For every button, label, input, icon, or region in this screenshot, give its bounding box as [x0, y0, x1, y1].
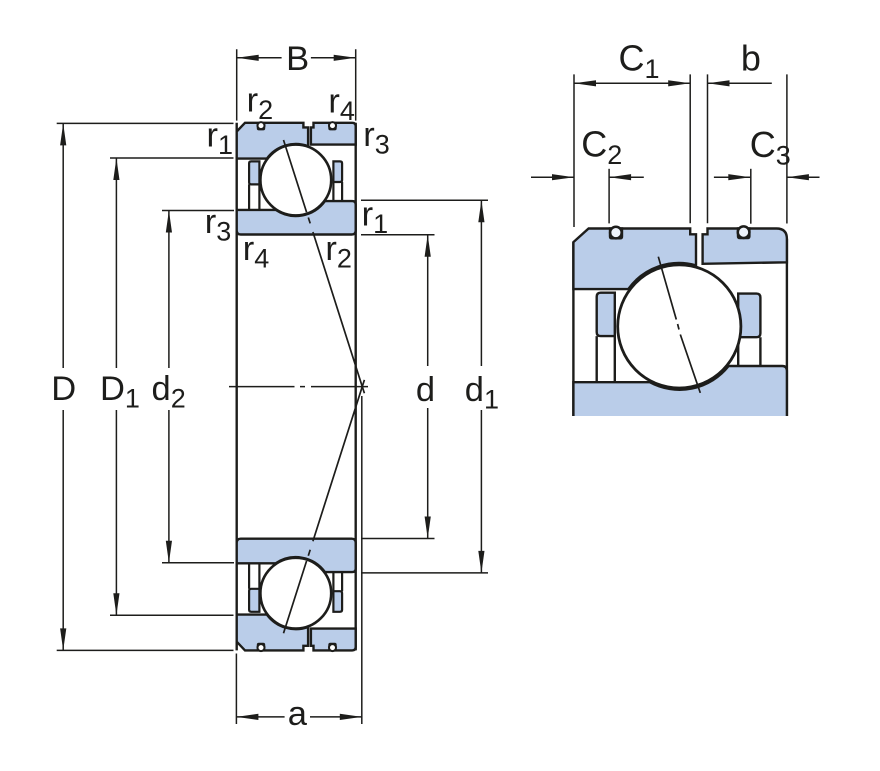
C3 dimension tails — [714, 176, 820, 178]
arrow D1 bottom — [113, 593, 119, 615]
wire: bearing right face line — [355, 123, 357, 651]
arrow d2 top — [166, 211, 172, 233]
d2 dimension line — [168, 211, 170, 563]
rivet hole circle right (outer ring) — [329, 122, 336, 129]
rivet hole pocket right (right figure) — [737, 227, 751, 239]
arrow d2 bottom — [166, 541, 172, 563]
ball (right figure) — [618, 265, 741, 388]
bottom section = mirror of top about y=386.6 — [237, 539, 356, 651]
svg-text:D: D — [51, 370, 76, 408]
wire: shoulder gap verticals left (lower) — [249, 563, 259, 589]
svg-text:d: d — [416, 371, 435, 409]
arrow D1 top — [113, 158, 119, 180]
outer ring upper-right portion — [311, 123, 356, 145]
a extension lines — [236, 396, 361, 724]
rivet hole circle right (right figure) — [738, 226, 750, 238]
a dimension line — [236, 716, 361, 718]
wire: shoulder gap verticals right (lower) — [333, 572, 342, 591]
wire: shoulder gap verticals right — [333, 182, 342, 201]
contact angle line top — [284, 140, 365, 393]
arrow a right — [340, 714, 362, 720]
cage shoulder block right (lower) — [333, 591, 342, 612]
contact angle line bottom — [284, 380, 365, 633]
rivet hole circle right (lower outer ring) — [329, 644, 336, 651]
d1 extension lines — [361, 200, 488, 573]
rivet hole circle left (lower outer ring) — [258, 644, 265, 651]
arrow d bottom — [425, 517, 431, 539]
outer ring upper-left portion — [237, 123, 308, 159]
wire: shoulder gap verticals left (right figure) — [597, 336, 615, 382]
C2 dimension tails — [531, 176, 644, 178]
inner ring lower section — [237, 539, 356, 572]
outer ring right portion (right figure) — [703, 229, 787, 264]
arrow d1 top — [478, 200, 484, 222]
rivet hole pocket left (outer ring) — [257, 122, 265, 130]
extension: slot left edge — [689, 74, 691, 223]
d dimension line — [427, 235, 429, 539]
rivet hole pocket right (lower outer ring) — [328, 643, 336, 651]
C2 extension: hole notch left edge — [608, 169, 610, 224]
rivet hole pocket right (outer ring) — [328, 122, 336, 130]
arrow D bottom — [60, 628, 66, 650]
d2 extension lines — [162, 211, 234, 563]
cage shoulder block left — [249, 161, 259, 184]
d1 dimension line — [480, 200, 482, 573]
contact angle line (right figure) with center dash-dot — [658, 257, 700, 393]
cage shoulder block left (right figure) — [597, 293, 615, 336]
wire: right figure left face line — [572, 242, 574, 416]
cage shoulder block left (lower) — [249, 589, 259, 612]
D1 extension lines — [110, 158, 234, 615]
B extension lines — [237, 49, 356, 120]
svg-text:a: a — [288, 695, 308, 733]
outer ring lower-left portion — [237, 615, 308, 651]
inner ring upper section — [237, 201, 356, 234]
wire: shoulder gap verticals right (right figure) — [738, 337, 760, 366]
rivet hole pocket left (lower outer ring) — [257, 643, 265, 651]
arrowheads right figure — [552, 80, 809, 180]
arrow C2 right (points left) — [609, 174, 631, 180]
C1 dimension line — [574, 82, 690, 84]
arrow C3 right (points left) — [787, 174, 809, 180]
ball (lower rolling element) — [260, 558, 331, 629]
arrow C3 left (points right) — [728, 174, 750, 180]
cage shoulder block right (right figure) — [738, 294, 760, 338]
rivet hole pocket left (right figure) — [609, 227, 623, 239]
D dimension line — [62, 123, 64, 650]
d extension lines — [361, 235, 435, 539]
wire: right figure right face line — [786, 239, 788, 416]
arrow C1 right — [668, 80, 690, 86]
wire: shoulder gap verticals left — [249, 184, 259, 210]
cage shoulder block right — [333, 161, 342, 182]
arrow B right — [334, 55, 356, 61]
C1/b extension line: figure left edge — [573, 74, 575, 227]
outer ring lower-right portion — [311, 629, 356, 651]
arrow C1 left — [574, 80, 596, 86]
D1 dimension line — [115, 158, 117, 615]
arrow d top — [425, 235, 431, 257]
extension: figure right edge — [786, 74, 788, 223]
extension: slot right edge — [707, 74, 709, 223]
b dimension tail line — [708, 82, 772, 84]
B dimension line — [237, 57, 356, 59]
outer ring left portion (right figure) — [573, 229, 696, 290]
inner ring (right figure, cut off at bottom) — [573, 366, 787, 416]
arrow d1 bottom — [478, 551, 484, 573]
arrow b (points left to slot) — [708, 80, 730, 86]
rivet hole circle left (right figure) — [610, 227, 622, 239]
D extension lines — [57, 123, 234, 650]
node: center axis dash-dot line — [229, 386, 368, 388]
arrowheads left figure — [60, 55, 484, 720]
wire: bearing left face line — [235, 123, 237, 651]
arrow D top — [60, 123, 66, 145]
svg-text:B: B — [286, 40, 309, 78]
arrow C2 left (points right) — [552, 174, 574, 180]
arrow a left — [236, 714, 258, 720]
C3 extension: hole notch right edge — [750, 169, 752, 224]
rivet hole circle left (outer ring) — [258, 122, 265, 129]
arrow B left — [237, 55, 259, 61]
inner ring outline (right figure, open at bottom) — [573, 366, 787, 416]
ball (rolling element) — [260, 145, 331, 216]
svg-text:b: b — [741, 38, 761, 79]
